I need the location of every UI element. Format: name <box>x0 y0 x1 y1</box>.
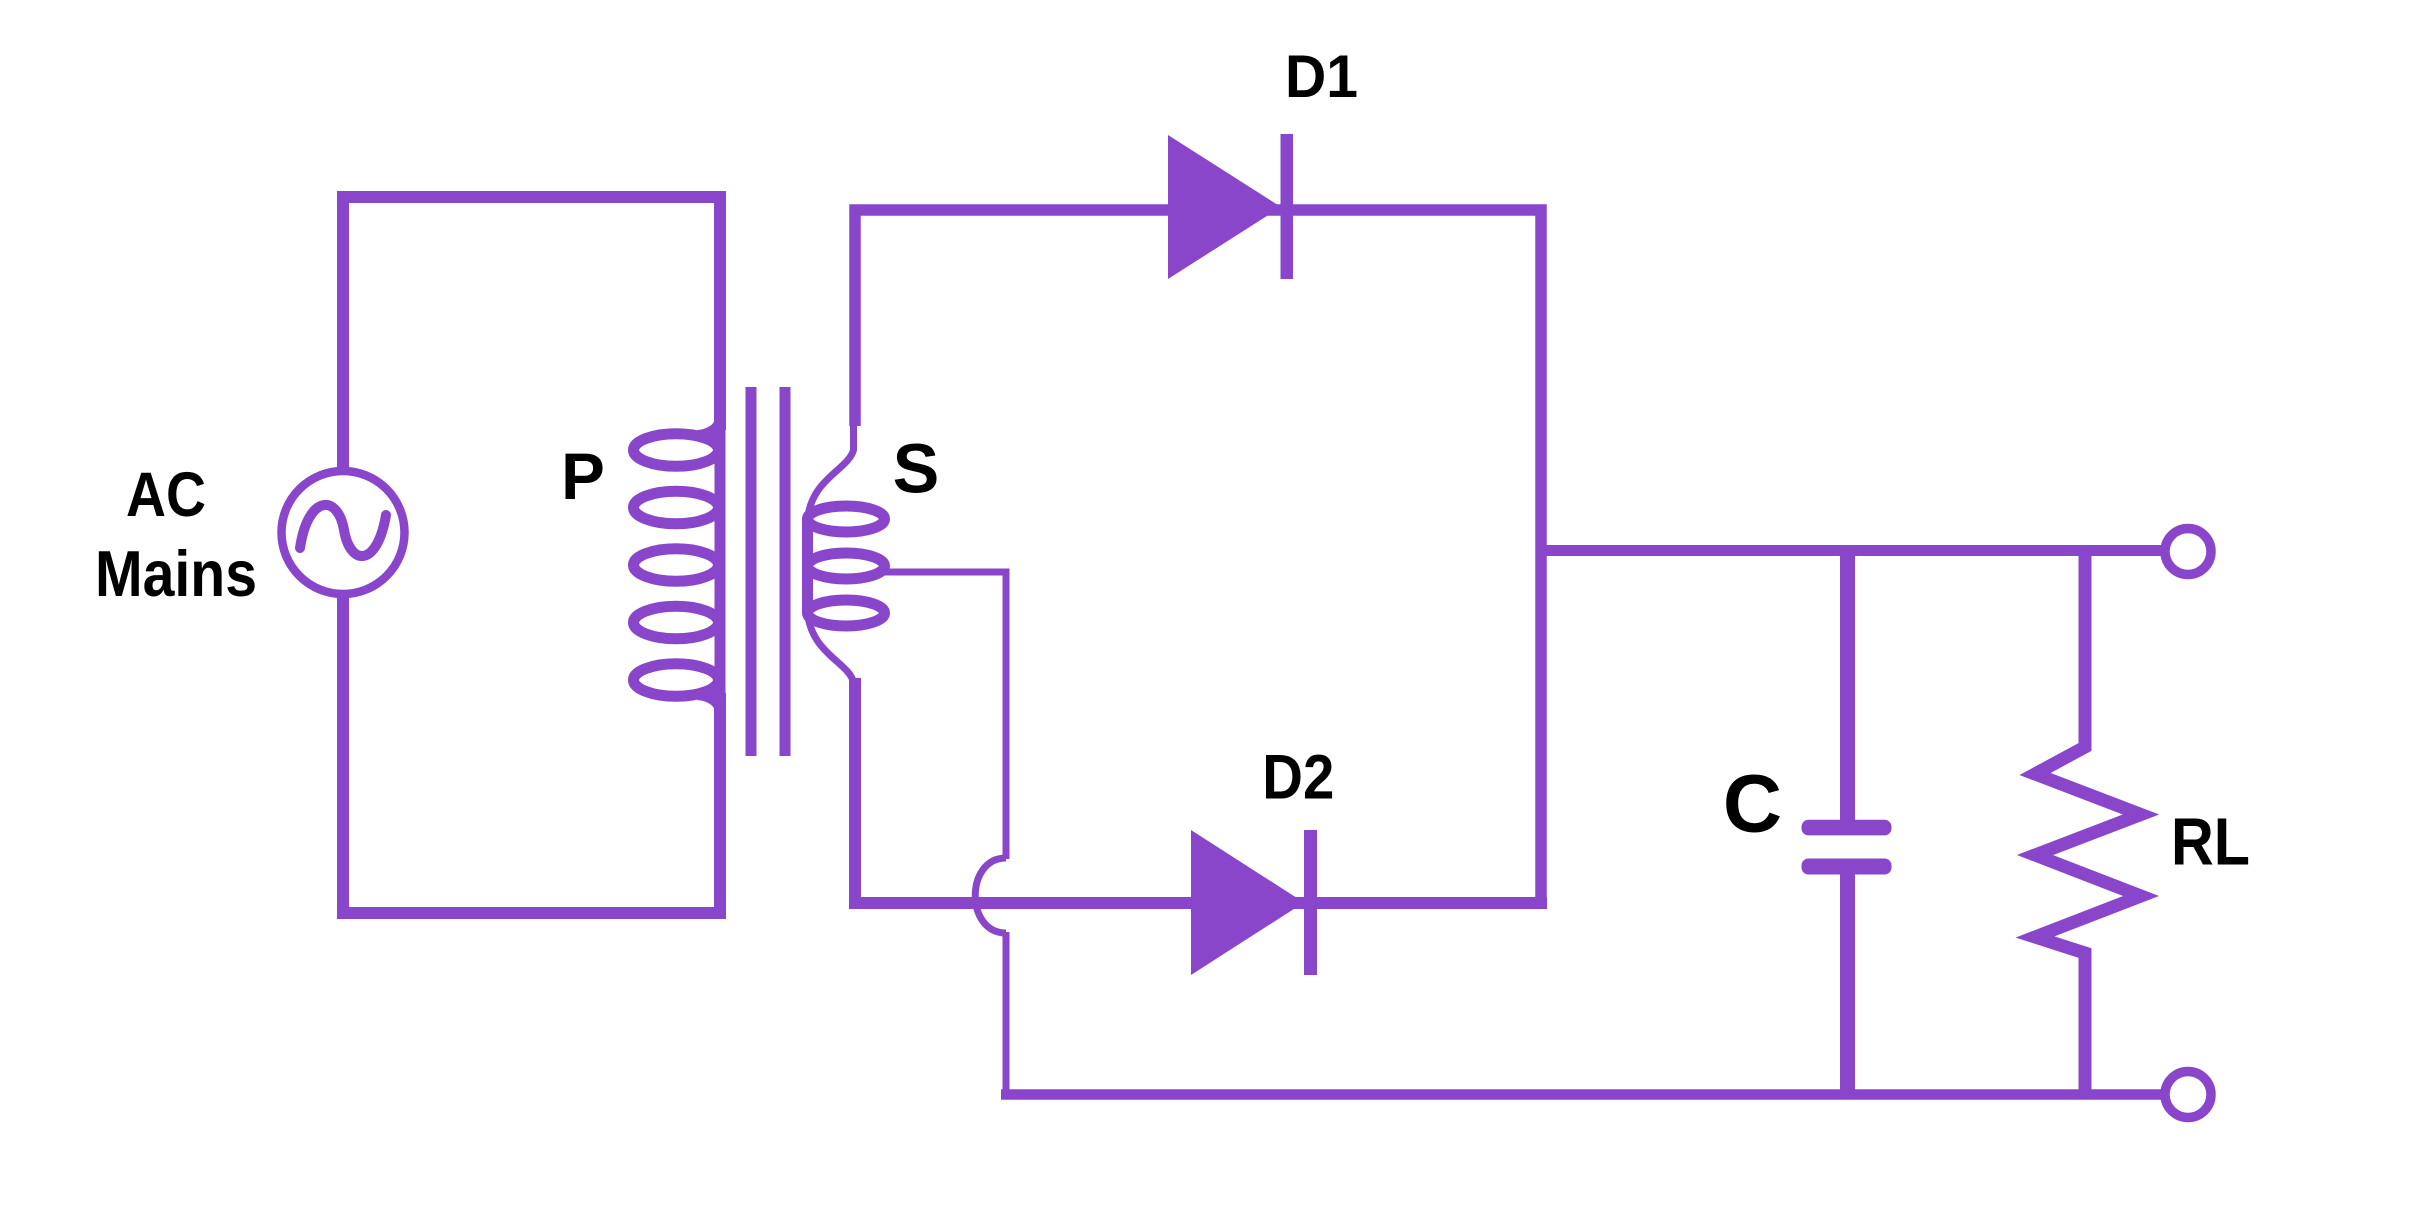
output terminal bottom <box>2165 1072 2211 1118</box>
capacitor C bottom lead <box>1840 872 1855 1095</box>
svg-text:S: S <box>893 430 940 508</box>
AC source sine symbol <box>300 505 386 556</box>
wire: AC mains left loop (bottom) <box>343 592 720 913</box>
wire: bottom rail to output terminal <box>1001 1089 2163 1100</box>
wire: secondary top to D1 to output node <box>855 210 1541 903</box>
AC source <box>282 471 405 594</box>
wire: secondary bottom to D2 <box>855 678 1547 903</box>
svg-text:AC: AC <box>126 460 206 530</box>
wire: center tap hop over D2 wire <box>975 858 1006 933</box>
svg-text:Mains: Mains <box>95 537 257 610</box>
svg-text:C: C <box>1723 759 1782 850</box>
wire: AC mains left loop (top-left rectangle) <box>343 197 720 473</box>
svg-text:D2: D2 <box>1262 743 1334 813</box>
svg-text:RL: RL <box>2171 806 2250 880</box>
transformer primary winding P <box>715 425 726 700</box>
wire: center tap from S <box>884 572 1006 859</box>
capacitor C top lead <box>1840 551 1855 822</box>
transformer secondary winding S top hook <box>808 424 854 519</box>
wire: center tap down to bottom rail <box>1003 932 1010 1099</box>
diode D1 <box>1168 135 1281 279</box>
svg-text:P: P <box>561 440 605 513</box>
wire: output node to top terminal <box>1541 545 2163 556</box>
output terminal top <box>2165 529 2211 575</box>
transformer secondary winding S bottom hook <box>808 613 854 682</box>
transformer secondary winding S left riser <box>802 519 813 613</box>
resistor RL <box>2035 551 2141 1095</box>
transformer secondary winding S coils <box>808 506 885 532</box>
capacitor C plates <box>1802 820 1892 836</box>
diode D2 <box>1191 830 1304 975</box>
svg-text:D1: D1 <box>1285 42 1358 110</box>
transformer core <box>746 387 757 756</box>
